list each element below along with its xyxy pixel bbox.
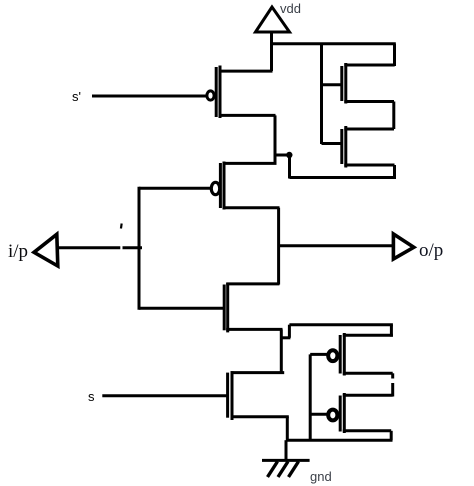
transistor Q8 nmos gate s [228, 371, 289, 420]
wire node B to Q6 drain [289, 323, 393, 326]
wire Q8 source riser [286, 417, 289, 441]
wire ground stem [285, 440, 288, 461]
wire Q5 source riser [393, 165, 396, 178]
i/p port arrow [34, 234, 58, 266]
transistor Q2 pmos middle [211, 162, 279, 210]
svg-text:gnd: gnd [310, 469, 332, 484]
wire o/p lead [279, 244, 393, 247]
transistor Q5 top right lower [322, 126, 395, 168]
svg-text:vdd: vdd [280, 1, 301, 16]
wire node B up riser [288, 325, 291, 338]
wire Q3 source riser down to Q8 drain [280, 329, 283, 373]
transistor Q3 nmos middle [224, 283, 282, 332]
wire jog node B [281, 336, 290, 339]
svg-text:s': s' [72, 89, 81, 104]
wire input gate bus vertical [138, 187, 141, 310]
wire Q3 gate connect [139, 307, 224, 310]
wire Q7 drain riser [391, 383, 394, 397]
wire Q1 source riser [274, 115, 277, 163]
wire s' gate [92, 95, 207, 98]
wire i/p lead [57, 246, 120, 249]
wire Q2 gate [139, 187, 212, 190]
wire s gate [102, 394, 227, 397]
wire vdd rail [270, 42, 396, 45]
wire riser to Q6 drain bar [390, 325, 393, 337]
wire node A down [288, 155, 291, 179]
ground symbol [262, 460, 310, 477]
svg-text:i/p: i/p [8, 241, 28, 262]
wire o/p node riser [277, 208, 280, 285]
wire Q7 source riser [390, 431, 393, 440]
node A junction dot [286, 152, 292, 158]
wire rail to Q4 drain riser [393, 44, 396, 66]
transistor Q1 pmos gate s' [207, 66, 276, 119]
wire ground rail [286, 439, 393, 442]
wire i/p lead segment2 [123, 246, 143, 249]
vdd power symbol [256, 7, 290, 32]
svg-text:o/p: o/p [419, 240, 443, 261]
wire gate bus for Q4 Q5 [320, 44, 323, 144]
transistor Q6 bottom right upper [310, 333, 393, 376]
wire vdd stem down to rail and Q1 drain [270, 32, 273, 71]
wire Q4 source to Q5 drain [392, 102, 395, 130]
wire Q6 source tick [391, 373, 394, 378]
wire bubble gate bus [309, 354, 312, 440]
o/p port arrow [393, 234, 413, 259]
wire internal node horizontal [290, 176, 397, 179]
transistor Q4 top right upper [322, 63, 395, 104]
node tick mark [120, 223, 123, 228]
wire jog to node A [275, 154, 291, 157]
svg-text:s: s [88, 389, 95, 404]
transistor Q7 bottom right lower [310, 393, 393, 433]
